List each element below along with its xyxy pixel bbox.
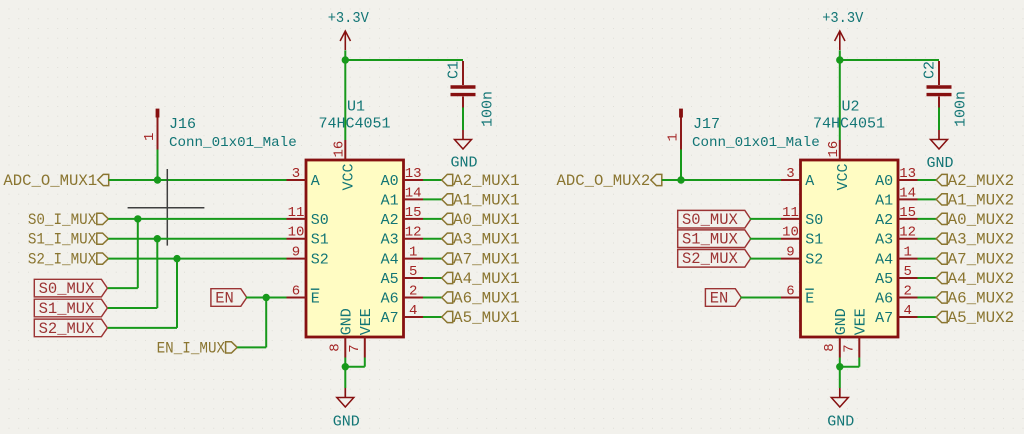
connector J17 pin pin number 1 bbox=[666, 133, 682, 141]
U2 pin name A4 bbox=[875, 252, 893, 269]
wire U2 A5 to A4_MUX2 bbox=[918, 277, 937, 279]
U2 pin 11 number bbox=[782, 205, 799, 221]
junction node S1 bbox=[154, 235, 161, 242]
U1 pin 12 (A3) stub bbox=[404, 238, 424, 240]
U1 pin 8 number bbox=[327, 343, 343, 351]
svg-text:4: 4 bbox=[409, 303, 417, 319]
U2 pin 9 (S2) stub bbox=[781, 258, 801, 260]
hierarchical label A2_MUX2 bbox=[936, 172, 1014, 190]
U2 pin name E bbox=[805, 289, 814, 307]
svg-text:A4_MUX2: A4_MUX2 bbox=[948, 270, 1015, 288]
U1 pin 12 number bbox=[405, 225, 422, 241]
U2 pin 8 number bbox=[822, 343, 838, 351]
U2 pin 9 number bbox=[786, 245, 794, 261]
junction node EN bbox=[263, 294, 270, 301]
hierarchical label S2_I_MUX bbox=[28, 251, 109, 269]
svg-text:5: 5 bbox=[903, 264, 911, 280]
wire S2_MUX stub bbox=[108, 327, 177, 329]
U1 reference bbox=[347, 99, 365, 116]
svg-text:S2: S2 bbox=[805, 252, 823, 269]
svg-text:S1: S1 bbox=[311, 232, 329, 249]
U2 pin name VEE bbox=[853, 308, 870, 335]
svg-text:A0: A0 bbox=[875, 173, 893, 190]
svg-text:S0_I_MUX: S0_I_MUX bbox=[28, 211, 97, 229]
hierarchical label ADC_O_MUX2 bbox=[557, 172, 662, 190]
U2 pin 2 (A6) stub bbox=[898, 297, 918, 299]
svg-text:S0: S0 bbox=[311, 212, 329, 229]
wire U1 pin8 down bbox=[344, 358, 346, 367]
svg-text:A3_MUX1: A3_MUX1 bbox=[453, 231, 520, 249]
svg-text:10: 10 bbox=[288, 225, 305, 241]
U1 pin name VCC bbox=[340, 163, 357, 190]
svg-text:1: 1 bbox=[903, 245, 911, 261]
U2 pin 1 number bbox=[903, 245, 911, 261]
U1 pin 3 (A) stub bbox=[287, 179, 307, 181]
svg-text:3: 3 bbox=[786, 166, 794, 182]
U2 pin 15 number bbox=[899, 205, 916, 221]
U2 pin name GND bbox=[833, 308, 850, 335]
svg-text:U1: U1 bbox=[347, 99, 365, 116]
U1 pin name A7 bbox=[381, 310, 399, 327]
wire U2 A6 to A6_MUX2 bbox=[918, 297, 937, 299]
U1 value 74HC4051 bbox=[319, 116, 391, 133]
svg-text:5: 5 bbox=[409, 264, 417, 280]
svg-text:GND: GND bbox=[333, 413, 360, 430]
wire EN vertical bbox=[265, 298, 267, 348]
wire ADC_O_MUX2 to U2 pin 3 bbox=[662, 179, 781, 181]
U2 pin name S2 bbox=[805, 252, 823, 269]
U2 pin 7 number bbox=[841, 344, 857, 352]
svg-text:A: A bbox=[805, 173, 814, 190]
hierarchical label A5_MUX1 bbox=[442, 309, 520, 327]
U1 pin 15 number bbox=[405, 205, 422, 221]
hierarchical label EN_I_MUX bbox=[157, 339, 238, 357]
svg-text:2: 2 bbox=[409, 284, 417, 300]
svg-text:J17: J17 bbox=[693, 116, 720, 133]
svg-text:16: 16 bbox=[826, 141, 842, 158]
svg-text:1: 1 bbox=[409, 245, 417, 261]
svg-text:A5: A5 bbox=[381, 271, 399, 288]
U1 pin 8 (GND) stub bbox=[344, 337, 346, 358]
U1 pin 5 (A5) stub bbox=[404, 277, 424, 279]
global label S0_MUX (left) bbox=[34, 279, 107, 298]
U1 pin name A1 bbox=[381, 192, 399, 209]
svg-text:11: 11 bbox=[288, 205, 305, 221]
U2 pin name A1 bbox=[875, 192, 893, 209]
U1 pin 9 (S2) stub bbox=[287, 258, 307, 260]
U1 pin 7 number bbox=[347, 344, 363, 352]
U1 pin name VEE bbox=[358, 308, 375, 335]
U2 pin 16 number bbox=[826, 141, 842, 158]
svg-text:A3: A3 bbox=[875, 232, 893, 249]
svg-text:3: 3 bbox=[292, 166, 300, 182]
wire U2 A3 to A3_MUX2 bbox=[918, 238, 937, 240]
wire EN to U1 pin 6 bbox=[246, 297, 287, 299]
connector J16 pin bbox=[156, 109, 160, 180]
U1 pin 13 (A0) stub bbox=[404, 179, 424, 181]
junction node S0 bbox=[134, 215, 141, 222]
U1 pin 10 (S1) stub bbox=[287, 238, 307, 240]
U2 pin name A5 bbox=[875, 271, 893, 288]
svg-text:S1_MUX: S1_MUX bbox=[39, 300, 96, 318]
svg-text:A7: A7 bbox=[875, 310, 893, 327]
svg-text:6: 6 bbox=[292, 284, 300, 300]
power +3.3V (U2) bbox=[822, 10, 863, 60]
svg-text:S1: S1 bbox=[805, 232, 823, 249]
svg-text:S2_MUX: S2_MUX bbox=[682, 250, 739, 268]
svg-text:8: 8 bbox=[327, 343, 343, 351]
wire S0_MUX stub bbox=[108, 287, 138, 289]
U2 pin 15 (A2) stub bbox=[898, 218, 918, 220]
svg-text:ADC_O_MUX2: ADC_O_MUX2 bbox=[557, 172, 651, 190]
wire U2 A0 to A2_MUX2 bbox=[918, 179, 937, 181]
svg-text:VEE: VEE bbox=[853, 308, 870, 335]
wire U1 A2 to A0_MUX1 bbox=[423, 218, 442, 220]
hierarchical label A5_MUX2 bbox=[936, 309, 1014, 327]
svg-text:A6: A6 bbox=[875, 290, 893, 307]
ground below C1 bbox=[450, 130, 477, 172]
svg-text:12: 12 bbox=[899, 225, 916, 241]
U1 pin 15 (A2) stub bbox=[404, 218, 424, 220]
svg-text:A3: A3 bbox=[381, 232, 399, 249]
U2 pin 5 number bbox=[903, 264, 911, 280]
svg-text:4: 4 bbox=[903, 303, 911, 319]
svg-text:100n: 100n bbox=[953, 91, 970, 127]
U2 pin name VCC bbox=[835, 163, 852, 190]
U1 pin 16 (VCC) stub bbox=[344, 140, 346, 160]
wire U2 pin7 down bbox=[858, 358, 860, 367]
wire U1 pin7 down bbox=[364, 358, 366, 367]
wire U1 A5 to A4_MUX1 bbox=[423, 277, 442, 279]
svg-text:A7_MUX1: A7_MUX1 bbox=[453, 251, 520, 269]
U1 pin 5 number bbox=[409, 264, 417, 280]
hierarchical label A4_MUX2 bbox=[936, 270, 1014, 288]
wire U2 pin8 down bbox=[839, 358, 841, 367]
svg-text:GND: GND bbox=[926, 155, 953, 172]
wire S1_I_MUX to U1 pin 10 bbox=[108, 238, 286, 240]
hierarchical label A6_MUX1 bbox=[442, 289, 520, 307]
svg-text:7: 7 bbox=[347, 344, 363, 352]
U2 pin 13 (A0) stub bbox=[898, 179, 918, 181]
U1 pin 1 (A4) stub bbox=[404, 258, 424, 260]
svg-text:15: 15 bbox=[405, 205, 422, 221]
wire U1 A4 to A7_MUX1 bbox=[423, 258, 442, 260]
U1 pin name A4 bbox=[381, 252, 399, 269]
U1 pin name GND bbox=[338, 308, 355, 335]
U1 pin 14 number bbox=[405, 185, 422, 201]
svg-text:A2_MUX1: A2_MUX1 bbox=[453, 172, 520, 190]
wire S1_MUX stub bbox=[108, 307, 158, 309]
U1 pin 11 number bbox=[288, 205, 305, 221]
svg-text:12: 12 bbox=[405, 225, 422, 241]
hierarchical label A1_MUX2 bbox=[936, 191, 1014, 209]
U1 pin 6 (E) stub bbox=[287, 297, 307, 299]
wire S2_I_MUX to U1 pin 9 bbox=[108, 258, 286, 260]
svg-text:A1: A1 bbox=[381, 192, 399, 209]
U2 pin 16 (VCC) stub bbox=[839, 140, 841, 160]
wire U1 A1 to A1_MUX1 bbox=[423, 198, 442, 200]
U2 pin 13 number bbox=[899, 166, 916, 182]
svg-text:A0_MUX1: A0_MUX1 bbox=[453, 211, 520, 229]
global label S0_MUX (right) bbox=[678, 210, 751, 229]
svg-text:GND: GND bbox=[827, 413, 854, 430]
U2 pin 3 (A) stub bbox=[781, 179, 801, 181]
U1 pin 1 number bbox=[409, 245, 417, 261]
U2 pin 5 (A5) stub bbox=[898, 277, 918, 279]
svg-text:S1_I_MUX: S1_I_MUX bbox=[28, 231, 97, 249]
junction +3.3V rail U1 bbox=[342, 56, 349, 63]
svg-text:E: E bbox=[805, 290, 814, 307]
hierarchical label A7_MUX1 bbox=[442, 251, 520, 269]
ground below U2 bbox=[827, 388, 854, 430]
wire U2 A7 to A5_MUX2 bbox=[918, 316, 937, 318]
svg-text:74HC4051: 74HC4051 bbox=[813, 116, 885, 133]
svg-text:A4: A4 bbox=[381, 252, 399, 269]
U1 pin 14 (A1) stub bbox=[404, 198, 424, 200]
svg-text:1: 1 bbox=[666, 133, 682, 141]
U1 pin name S1 bbox=[311, 232, 329, 249]
wire S0_MUX to U2 pin 11 bbox=[750, 218, 781, 220]
U1 pin 4 (A7) stub bbox=[404, 316, 424, 318]
U1 pin 11 (S0) stub bbox=[287, 218, 307, 220]
connector J16 reference bbox=[169, 116, 196, 133]
capacitor C2 bbox=[927, 61, 952, 130]
wire U1 A6 to A6_MUX1 bbox=[423, 297, 442, 299]
wire U1 A7 to A5_MUX1 bbox=[423, 316, 442, 318]
hierarchical label S0_I_MUX bbox=[28, 211, 109, 229]
U1 pin name A5 bbox=[381, 271, 399, 288]
svg-text:9: 9 bbox=[786, 245, 794, 261]
U1 pin name A bbox=[311, 173, 320, 190]
svg-text:A1_MUX1: A1_MUX1 bbox=[453, 191, 520, 209]
U2 pin 7 (VEE) stub bbox=[858, 337, 860, 358]
junction U1 GND/VEE bbox=[342, 363, 349, 370]
svg-text:11: 11 bbox=[782, 205, 799, 221]
junction U2 GND/VEE bbox=[836, 363, 843, 370]
svg-text:A: A bbox=[311, 173, 320, 190]
svg-text:+3.3V: +3.3V bbox=[822, 10, 863, 27]
hierarchical label A2_MUX1 bbox=[442, 172, 520, 190]
U2 pin 1 (A4) stub bbox=[898, 258, 918, 260]
wire S0_I_MUX to U1 pin 11 bbox=[108, 218, 286, 220]
U1 pin 13 number bbox=[405, 166, 422, 182]
global label S2_MUX (left) bbox=[34, 319, 107, 338]
svg-text:2: 2 bbox=[903, 284, 911, 300]
connector J16 pin pin number 1 bbox=[142, 133, 158, 141]
hierarchical label A4_MUX1 bbox=[442, 270, 520, 288]
U2 pin name A2 bbox=[875, 212, 893, 229]
U2 reference bbox=[842, 99, 860, 116]
hierarchical label A0_MUX1 bbox=[442, 211, 520, 229]
svg-text:13: 13 bbox=[405, 166, 422, 182]
global label EN (left) bbox=[211, 289, 247, 308]
svg-text:EN_I_MUX: EN_I_MUX bbox=[157, 339, 226, 357]
svg-text:S2_MUX: S2_MUX bbox=[39, 320, 96, 338]
op-amp U2 body 74HC4051 bbox=[801, 160, 899, 337]
svg-text:10: 10 bbox=[782, 225, 799, 241]
svg-text:C2: C2 bbox=[922, 61, 939, 79]
U2 pin 10 (S1) stub bbox=[781, 238, 801, 240]
global label S1_MUX (left) bbox=[34, 299, 107, 318]
hierarchical label A3_MUX1 bbox=[442, 231, 520, 249]
U1 pin 4 number bbox=[409, 303, 417, 319]
svg-text:6: 6 bbox=[786, 284, 794, 300]
svg-text:VCC: VCC bbox=[340, 163, 357, 190]
svg-text:A4: A4 bbox=[875, 252, 893, 269]
wire U2 gnd down bbox=[839, 367, 841, 388]
global label S1_MUX (right) bbox=[678, 230, 751, 249]
svg-text:9: 9 bbox=[292, 245, 300, 261]
svg-text:+3.3V: +3.3V bbox=[328, 10, 369, 27]
U2 pin 14 number bbox=[899, 185, 916, 201]
svg-text:14: 14 bbox=[899, 185, 916, 201]
global label S2_MUX (right) bbox=[678, 250, 751, 269]
U1 pin 16 number bbox=[331, 141, 347, 158]
cursor crosshair bbox=[128, 169, 205, 246]
capacitor C1 value 100n bbox=[480, 91, 497, 127]
wire S1 vertical bbox=[156, 239, 158, 308]
svg-text:S0_MUX: S0_MUX bbox=[682, 211, 739, 229]
svg-text:A5_MUX1: A5_MUX1 bbox=[453, 309, 520, 327]
U2 pin 10 number bbox=[782, 225, 799, 241]
svg-text:A0: A0 bbox=[381, 173, 399, 190]
U1 pin 3 number bbox=[292, 166, 300, 182]
svg-text:A4_MUX1: A4_MUX1 bbox=[453, 270, 520, 288]
U1 pin name A6 bbox=[381, 290, 399, 307]
svg-text:A6: A6 bbox=[381, 290, 399, 307]
hierarchical label A1_MUX1 bbox=[442, 191, 520, 209]
U1 pin name A2 bbox=[381, 212, 399, 229]
svg-text:S0_MUX: S0_MUX bbox=[39, 280, 96, 298]
svg-text:S1_MUX: S1_MUX bbox=[682, 231, 739, 249]
wire +3.3V down to U2 VCC bbox=[839, 59, 841, 140]
U2 pin 4 number bbox=[903, 303, 911, 319]
svg-text:A6_MUX1: A6_MUX1 bbox=[453, 289, 520, 307]
power +3.3V (U1) bbox=[328, 10, 369, 60]
wire U2 A4 to A7_MUX2 bbox=[918, 258, 937, 260]
svg-text:S2_I_MUX: S2_I_MUX bbox=[28, 251, 97, 269]
wire U1 A0 to A2_MUX1 bbox=[423, 179, 442, 181]
connector J17 pin bbox=[679, 109, 683, 180]
hierarchical label A3_MUX2 bbox=[936, 231, 1014, 249]
wire ADC_O_MUX1 to U1 pin 3 bbox=[109, 179, 287, 181]
svg-text:A1: A1 bbox=[875, 192, 893, 209]
connector J17 value Conn_01x01_Male bbox=[692, 135, 820, 151]
U2 pin 8 (GND) stub bbox=[839, 337, 841, 358]
svg-text:14: 14 bbox=[405, 185, 422, 201]
ground below C2 bbox=[926, 130, 953, 172]
svg-text:S0: S0 bbox=[805, 212, 823, 229]
U2 pin 11 (S0) stub bbox=[781, 218, 801, 220]
connector J16 value Conn_01x01_Male bbox=[169, 135, 297, 151]
svg-text:A7: A7 bbox=[381, 310, 399, 327]
wire S2 vertical bbox=[176, 259, 178, 328]
U2 pin 12 (A3) stub bbox=[898, 238, 918, 240]
svg-text:74HC4051: 74HC4051 bbox=[319, 116, 391, 133]
wire EN_I_MUX stub bbox=[237, 346, 266, 348]
U1 pin name A3 bbox=[381, 232, 399, 249]
svg-text:A6_MUX2: A6_MUX2 bbox=[948, 289, 1015, 307]
svg-text:8: 8 bbox=[822, 343, 838, 351]
svg-text:Conn_01x01_Male: Conn_01x01_Male bbox=[169, 135, 297, 151]
wire EN to U2 pin 6 bbox=[740, 297, 781, 299]
svg-text:Conn_01x01_Male: Conn_01x01_Male bbox=[692, 135, 820, 151]
svg-text:C1: C1 bbox=[446, 61, 463, 79]
capacitor C2 value 100n bbox=[953, 91, 970, 127]
wire U2 pin7 to pin8 bbox=[840, 366, 860, 368]
U1 pin name S2 bbox=[311, 252, 329, 269]
wire U1 gnd down bbox=[344, 367, 346, 388]
U1 pin name S0 bbox=[311, 212, 329, 229]
hierarchical label S1_I_MUX bbox=[28, 231, 109, 249]
svg-text:U2: U2 bbox=[842, 99, 860, 116]
U2 pin name A7 bbox=[875, 310, 893, 327]
svg-text:S2: S2 bbox=[311, 252, 329, 269]
capacitor C2 reference bbox=[922, 61, 939, 79]
hierarchical label A0_MUX2 bbox=[936, 211, 1014, 229]
U2 pin 14 (A1) stub bbox=[898, 198, 918, 200]
svg-text:A2_MUX2: A2_MUX2 bbox=[948, 172, 1015, 190]
junction +3.3V rail U2 bbox=[836, 56, 843, 63]
global label EN (right) bbox=[705, 289, 741, 308]
U1 pin 9 number bbox=[292, 245, 300, 261]
svg-text:GND: GND bbox=[833, 308, 850, 335]
svg-text:VCC: VCC bbox=[835, 163, 852, 190]
connector J17 reference bbox=[693, 116, 720, 133]
U2 pin 2 number bbox=[903, 284, 911, 300]
svg-text:A0_MUX2: A0_MUX2 bbox=[948, 211, 1015, 229]
wire S1_MUX to U2 pin 10 bbox=[750, 238, 781, 240]
U2 pin 3 number bbox=[786, 166, 794, 182]
U2 pin name A6 bbox=[875, 290, 893, 307]
wire U1 pin7 to pin8 bbox=[345, 366, 365, 368]
svg-text:A1_MUX2: A1_MUX2 bbox=[948, 191, 1015, 209]
wire U2 A2 to A0_MUX2 bbox=[918, 218, 937, 220]
hierarchical label A6_MUX2 bbox=[936, 289, 1014, 307]
U2 pin name A3 bbox=[875, 232, 893, 249]
U2 pin name A bbox=[805, 173, 814, 190]
U2 value 74HC4051 bbox=[813, 116, 885, 133]
U1 pin 7 (VEE) stub bbox=[364, 337, 366, 358]
svg-text:A5_MUX2: A5_MUX2 bbox=[948, 309, 1015, 327]
U2 pin 12 number bbox=[899, 225, 916, 241]
svg-text:J16: J16 bbox=[169, 116, 196, 133]
svg-text:EN: EN bbox=[710, 289, 729, 307]
U2 pin 6 number bbox=[786, 284, 794, 300]
ground below U1 bbox=[333, 388, 360, 430]
wire S0 vertical bbox=[137, 219, 139, 288]
U2 pin name S1 bbox=[805, 232, 823, 249]
svg-text:A5: A5 bbox=[875, 271, 893, 288]
svg-text:100n: 100n bbox=[480, 91, 497, 127]
wire S2_MUX to U2 pin 9 bbox=[750, 258, 781, 260]
U1 pin 2 number bbox=[409, 284, 417, 300]
svg-text:16: 16 bbox=[331, 141, 347, 158]
svg-text:A7_MUX2: A7_MUX2 bbox=[948, 251, 1015, 269]
svg-text:GND: GND bbox=[338, 308, 355, 335]
U2 pin name A0 bbox=[875, 173, 893, 190]
wire +3.3V down to U1 VCC bbox=[344, 59, 346, 140]
U1 pin name E bbox=[311, 289, 320, 307]
U1 pin 10 number bbox=[288, 225, 305, 241]
svg-text:EN: EN bbox=[215, 289, 234, 307]
junction J16 / ADC_O_MUX1 bbox=[154, 176, 161, 183]
U1 pin 2 (A6) stub bbox=[404, 297, 424, 299]
hierarchical label ADC_O_MUX1 bbox=[3, 172, 108, 190]
svg-text:A2: A2 bbox=[875, 212, 893, 229]
U2 pin 6 (E) stub bbox=[781, 297, 801, 299]
svg-text:A3_MUX2: A3_MUX2 bbox=[948, 231, 1015, 249]
